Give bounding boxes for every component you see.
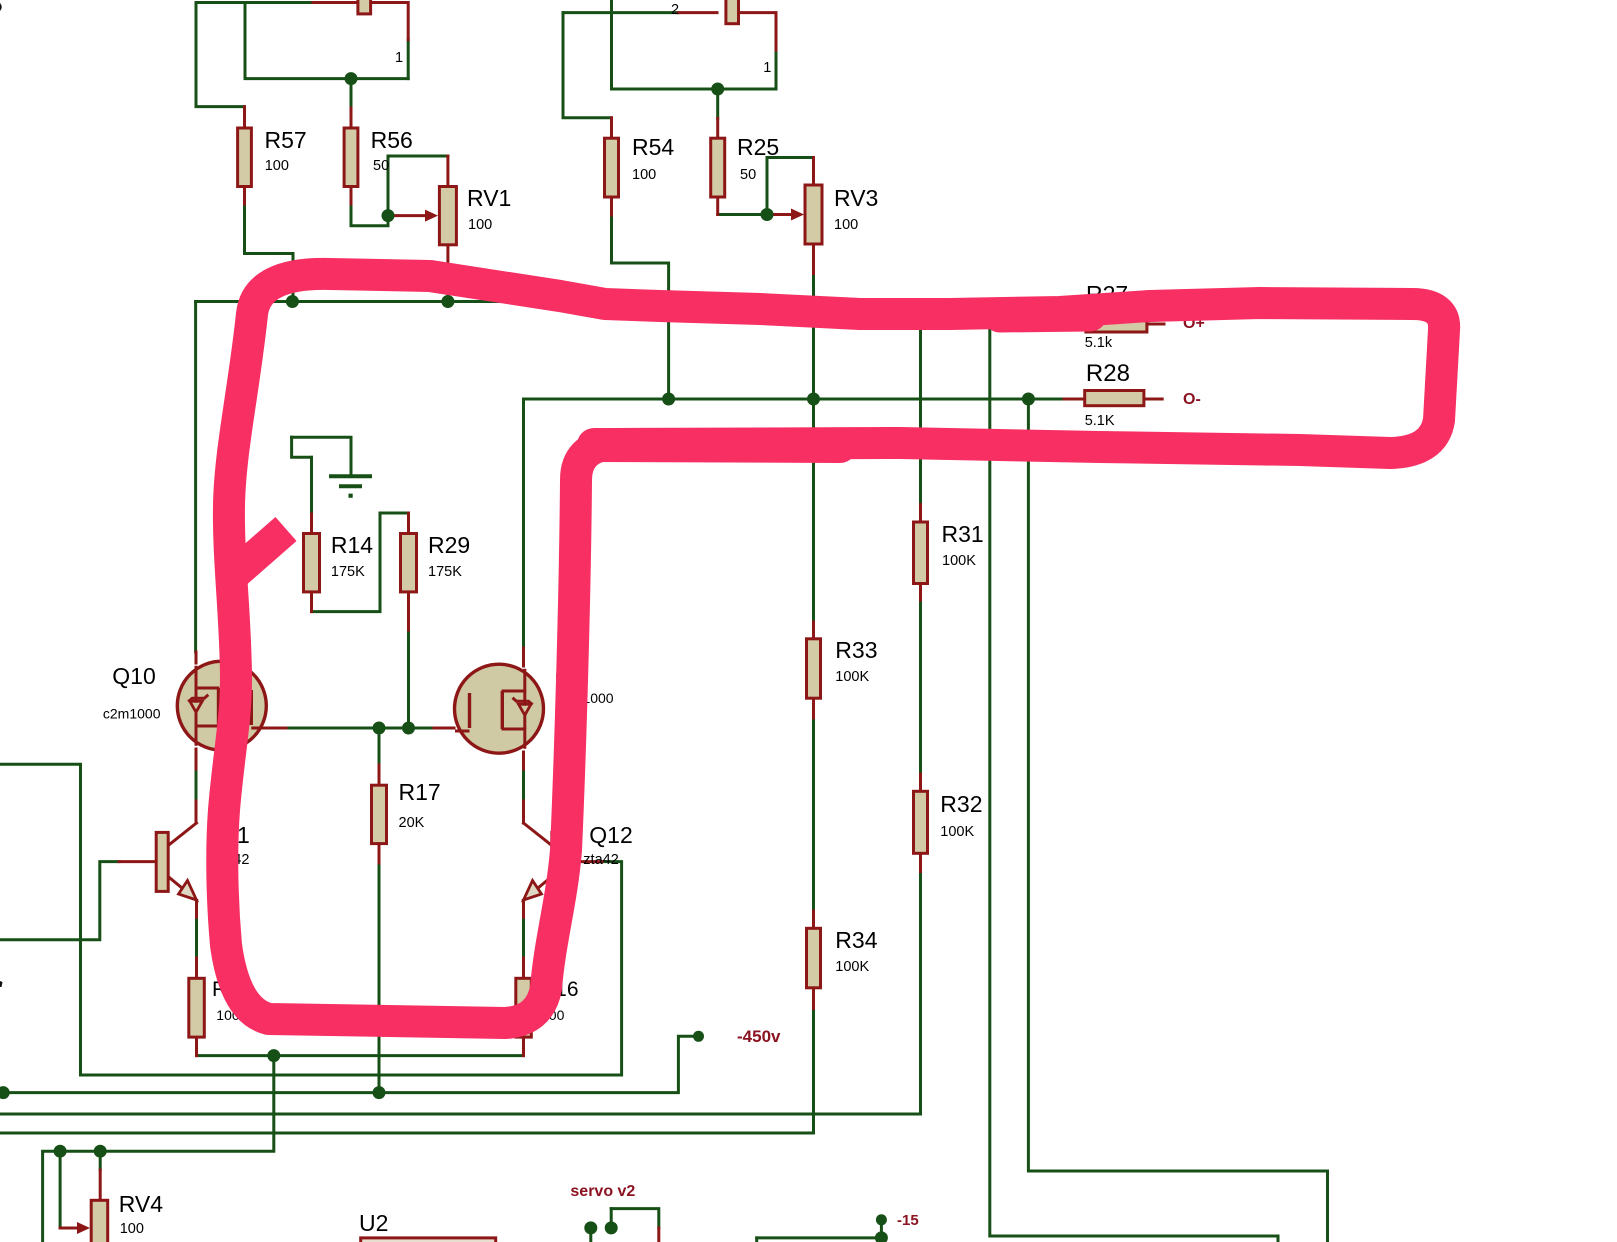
svg-text:1: 1 [395, 50, 403, 66]
svg-text:100K: 100K [942, 553, 976, 569]
svg-text:100K: 100K [835, 669, 869, 685]
svg-text:U2: U2 [359, 1210, 388, 1236]
svg-text:RV1: RV1 [467, 185, 511, 211]
svg-text:R31: R31 [942, 521, 984, 547]
svg-text:RV4: RV4 [119, 1191, 164, 1217]
svg-text:1: 1 [763, 60, 771, 76]
svg-text:100K: 100K [835, 959, 869, 975]
svg-text:c2m1000: c2m1000 [103, 706, 161, 722]
svg-text:100K: 100K [940, 824, 974, 840]
svg-text:100: 100 [120, 1221, 144, 1237]
svg-text:O-: O- [1183, 391, 1201, 408]
svg-text:50: 50 [373, 158, 389, 174]
svg-text:R32: R32 [940, 791, 982, 817]
svg-text:R54: R54 [632, 134, 674, 160]
svg-text:zta42: zta42 [583, 852, 618, 868]
svg-text:R56: R56 [371, 127, 413, 153]
svg-text:-450v: -450v [737, 1027, 781, 1046]
svg-text:R28: R28 [1086, 360, 1130, 387]
svg-text:R25: R25 [737, 134, 779, 160]
svg-text:R29: R29 [428, 532, 470, 558]
svg-text:R34: R34 [835, 927, 877, 953]
svg-text:5.1K: 5.1K [1085, 413, 1115, 429]
svg-text:R14: R14 [331, 532, 373, 558]
svg-text:R17: R17 [399, 779, 441, 805]
svg-text:R33: R33 [835, 637, 877, 663]
svg-text:100: 100 [265, 158, 289, 174]
svg-text:100: 100 [632, 167, 656, 183]
svg-text:5.1k: 5.1k [1085, 335, 1113, 351]
svg-text:175K: 175K [331, 564, 365, 580]
svg-text:175K: 175K [428, 564, 462, 580]
svg-text:R57: R57 [265, 127, 307, 153]
svg-text:-15: -15 [897, 1212, 919, 1229]
svg-text:100: 100 [468, 217, 492, 233]
svg-text:2: 2 [671, 2, 679, 18]
svg-text:20K: 20K [399, 815, 425, 831]
svg-text:Q12: Q12 [589, 822, 632, 848]
svg-text:Q10: Q10 [112, 663, 155, 689]
svg-text:50: 50 [740, 167, 756, 183]
svg-text:RV3: RV3 [834, 185, 878, 211]
svg-text:servo v2: servo v2 [570, 1183, 635, 1200]
svg-text:100: 100 [834, 217, 858, 233]
